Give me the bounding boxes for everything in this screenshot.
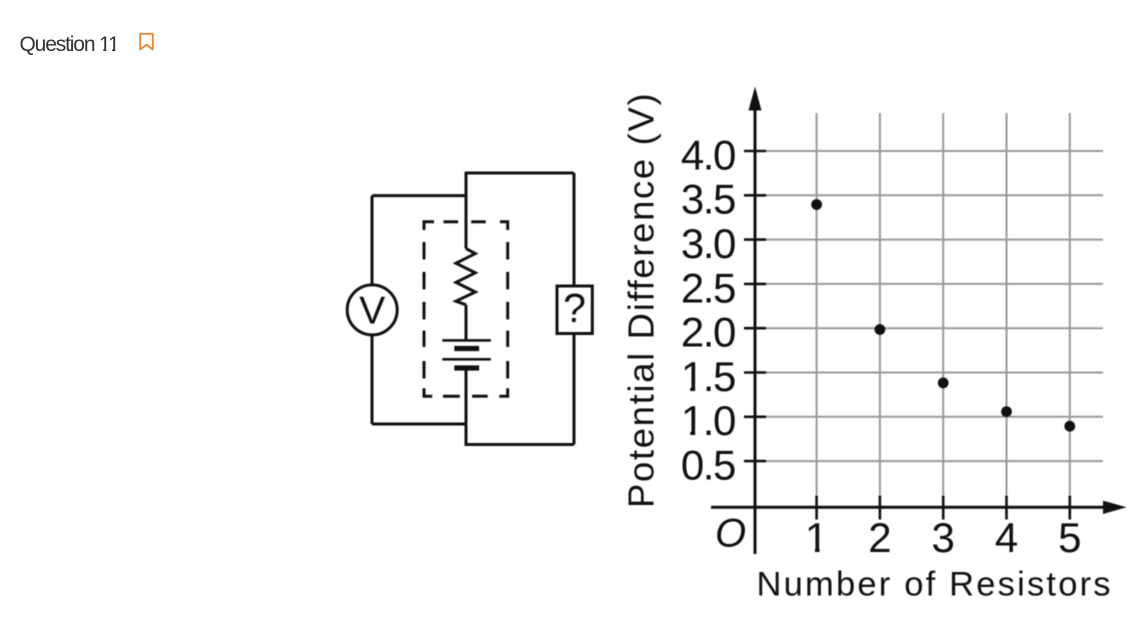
svg-text:4.0: 4.0: [681, 131, 735, 178]
dashed box corner bottom-right: [499, 388, 507, 396]
y axis ticks: [744, 151, 766, 461]
data point (4, 1.1): [1001, 406, 1012, 417]
x tick labels: [805, 514, 1082, 561]
wire left loop bottom: [372, 423, 468, 426]
dashed box corner top-right: [500, 222, 508, 230]
dashed box top edge dash 1: [444, 220, 459, 223]
battery cell plate short 1: [454, 346, 479, 351]
svg-text:4: 4: [995, 514, 1018, 561]
svg-text:2.5: 2.5: [681, 264, 735, 311]
digit foot trim overlays (graph): [683, 384, 827, 553]
resistor R: [456, 249, 475, 305]
svg-text:5: 5: [1058, 514, 1081, 561]
svg-text:2.0: 2.0: [681, 309, 735, 356]
wire left loop top: [372, 194, 466, 197]
svg-text:1: 1: [805, 514, 828, 561]
wire outer right lower: [573, 334, 576, 445]
svg-text:Question 11: Question 11: [20, 33, 120, 56]
battery cell plate long 1: [442, 339, 491, 342]
data point (5, 0.9): [1064, 421, 1075, 432]
battery cell plate long 2: [442, 358, 491, 361]
svg-text:1.0: 1.0: [681, 397, 735, 444]
wire outer right upper: [573, 173, 576, 286]
wire outer bottom: [465, 443, 575, 446]
svg-text:?: ?: [563, 285, 586, 331]
x axis ticks: [817, 496, 1070, 520]
wire center top: [465, 173, 468, 249]
dashed box corner top-left: [424, 222, 434, 230]
svg-text:Number of Resistors: Number of Resistors: [757, 565, 1113, 603]
svg-text:O: O: [715, 512, 746, 556]
dashed box bottom edge dash 1: [443, 395, 460, 398]
x axis: [711, 506, 1104, 509]
data point (3, 1.4): [938, 378, 949, 389]
dashed box corner bottom-left: [424, 388, 432, 396]
data point (2, 2.0): [875, 324, 886, 335]
voltmeter V circle: [347, 285, 397, 335]
svg-text:2: 2: [868, 514, 891, 561]
data point (1, 3.4): [811, 199, 822, 210]
dashed box bottom edge dash 2: [472, 395, 488, 398]
y tick labels: [681, 131, 735, 488]
svg-text:1.5: 1.5: [681, 353, 735, 400]
svg-text:0.5: 0.5: [681, 442, 735, 489]
y axis: [754, 109, 757, 554]
digit foot trim overlays (header): [100, 49, 119, 52]
dashed box top edge dash 2: [471, 220, 486, 223]
svg-text:V: V: [359, 290, 385, 333]
svg-text:3: 3: [932, 514, 955, 561]
svg-text:Potential Difference (V): Potential Difference (V): [621, 92, 662, 508]
x axis arrow: [1103, 501, 1127, 514]
graph gridlines horizontal: [766, 151, 1104, 461]
bookmark icon: [140, 34, 153, 50]
wire left vertical upper: [371, 196, 374, 285]
y axis arrow: [749, 87, 762, 111]
unknown component ? box: [557, 286, 592, 334]
wire left vertical lower: [371, 335, 374, 425]
dashed enclosure box: [424, 222, 508, 396]
wire resistor to battery: [465, 305, 468, 341]
dashed box left edge dashes: [423, 242, 426, 379]
battery cell plate short 2: [454, 365, 479, 370]
svg-text:3.0: 3.0: [681, 220, 735, 267]
svg-text:3.5: 3.5: [681, 176, 735, 223]
wire outer top: [466, 172, 574, 173]
wire battery to bottom: [465, 369, 468, 445]
graph gridlines vertical: [817, 113, 1070, 495]
dashed box right edge dashes: [506, 242, 509, 379]
